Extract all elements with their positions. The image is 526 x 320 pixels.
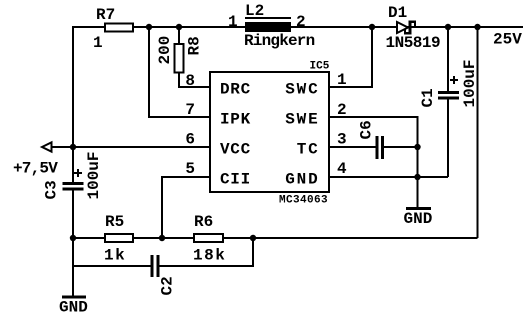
svg-text:+7,5V: +7,5V [13,160,58,178]
resistor R8 [175,44,184,73]
wire left rail lower (gnd side of C3) [72,189,74,296]
svg-text:MC34063: MC34063 [279,195,328,207]
wire TC pin 3 to C6 [329,146,376,148]
wire bottom feedback rail [73,237,478,239]
svg-text:C3: C3 [43,180,61,199]
resistor R5 [105,234,133,242]
svg-text:GND: GND [285,171,319,189]
svg-text:IPK: IPK [220,111,251,129]
svg-text:7: 7 [185,101,195,119]
wire top rail [72,26,523,28]
svg-text:200: 200 [156,36,174,65]
ground symbol left [62,296,86,299]
wire SWC pin 1 riser [329,27,372,87]
ground symbol right [406,207,431,210]
svg-text:1: 1 [228,13,238,31]
svg-text:2: 2 [337,101,347,119]
svg-text:C1: C1 [419,88,437,107]
svg-text:100uF: 100uF [461,59,479,107]
svg-text:1: 1 [337,71,347,89]
wire IPK pin 7 riser [149,27,210,117]
resistor R6 [194,234,223,242]
wire C1 top [447,27,449,91]
svg-text:TC: TC [297,141,320,159]
wire C2 left [73,265,151,267]
wire C2 right riser [158,238,253,266]
svg-text:4: 4 [337,160,347,178]
svg-text:5: 5 [185,160,195,178]
svg-text:8: 8 [185,72,195,90]
svg-text:R5: R5 [105,213,124,231]
input arrow +7,5V [42,142,52,151]
capacitor C3 [63,182,84,185]
svg-text:1k: 1k [104,247,126,265]
svg-text:C2: C2 [159,276,177,295]
capacitor C2 [151,255,154,277]
wire C1 bottom [447,100,449,178]
svg-text:18k: 18k [193,247,226,265]
svg-text:IC5: IC5 [310,61,330,73]
svg-text:C6: C6 [358,120,376,139]
svg-text:Ringkern: Ringkern [244,32,315,50]
wire left rail upper (+7,5V net) [72,26,74,184]
svg-text:R7: R7 [96,6,115,24]
svg-text:L2: L2 [245,2,264,20]
wire input to VCC pin 6 [50,146,210,148]
capacitor C6 [376,136,379,159]
wire R8 bottom to pin 8 [179,72,210,87]
svg-text:1: 1 [93,34,103,52]
svg-text:6: 6 [185,131,195,149]
svg-text:2: 2 [296,13,306,31]
diode D1 schottky [397,22,408,33]
svg-text:3: 3 [337,131,347,149]
svg-text:R6: R6 [194,213,213,231]
wire C6 right [383,146,418,148]
svg-text:CII: CII [220,171,251,189]
wire GND pin 4 row [329,176,448,178]
inductor L2 [245,17,291,19]
wire SWE pin 2 to gnd node [329,117,418,207]
junction dots [146,24,152,30]
svg-text:SWC: SWC [285,81,319,99]
svg-text:SWE: SWE [285,111,319,129]
svg-text:DRC: DRC [220,81,251,99]
wire R8 top [178,27,180,45]
svg-text:R8: R8 [186,36,204,55]
op-amp IC5 MC34063 box [210,72,329,192]
svg-text:25V: 25V [493,31,522,49]
svg-text:100uF: 100uF [85,151,103,199]
capacitor C1 [438,91,459,94]
svg-text:1N5819: 1N5819 [386,34,441,52]
wire right rail 25V sense [477,27,479,238]
svg-text:GND: GND [59,299,88,317]
svg-text:VCC: VCC [220,141,251,159]
svg-text:GND: GND [404,210,433,228]
resistor R7 [105,24,133,32]
svg-text:D1: D1 [388,4,407,22]
wire CII pin 5 to divider tap [162,177,210,238]
